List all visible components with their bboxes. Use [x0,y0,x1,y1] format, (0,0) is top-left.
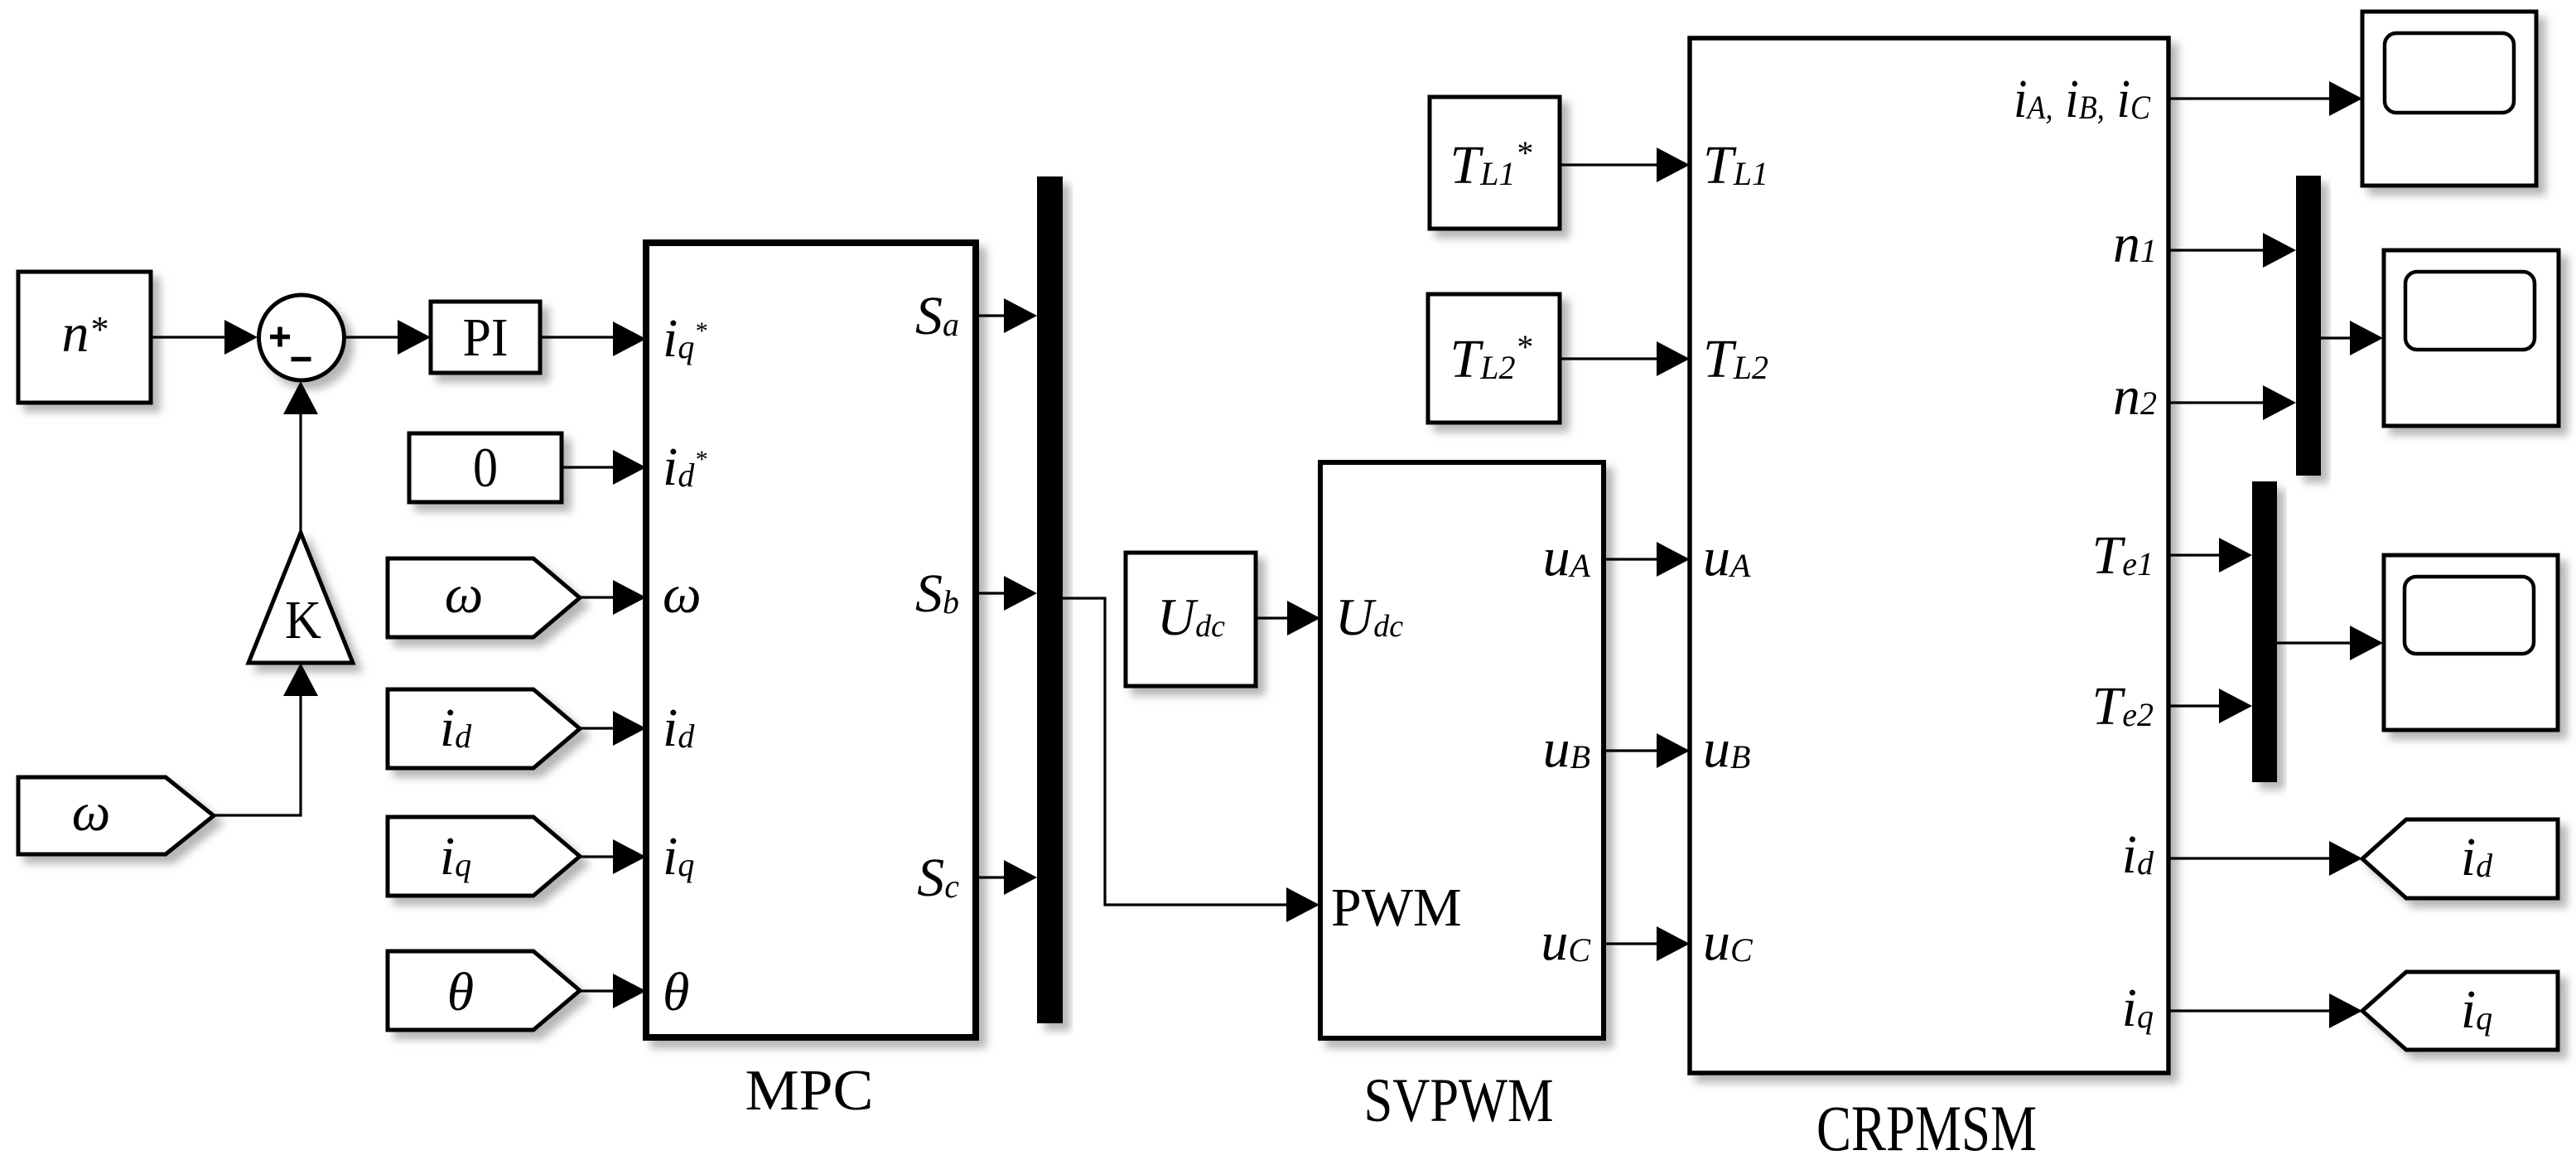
wire omega to MPC [580,580,646,615]
wire omega tag to K (elbow up) [214,663,318,815]
wire mux2 to scope2 [2321,321,2383,355]
wire Te2 to mux3 [2168,689,2252,723]
svg-text:PI: PI [463,307,509,368]
svg-text:θ: θ [663,962,689,1022]
MPC block [646,243,976,1037]
wire n* to sum [151,320,258,355]
gain triangle K [248,533,353,663]
CRPMSM block [1690,38,2168,1073]
wire iABC to scope1 [2168,81,2362,116]
svg-text:0: 0 [473,436,498,499]
svg-text:θ: θ [447,962,474,1022]
PI block [431,302,540,373]
input tag omega (column) [388,558,580,637]
wire uB to CRPMSM [1604,733,1690,768]
wire theta to MPC [580,974,646,1008]
wire mux3 to scope3 [2277,626,2383,660]
wire Udc to SVPWM [1256,601,1320,636]
svg-text:PWM: PWM [1331,877,1462,938]
scope 3 [2384,555,2558,730]
wire sum to PI [345,320,431,355]
source block n* [18,272,151,403]
SVPWM block [1320,462,1604,1038]
wire Sc to mux [976,860,1037,895]
wire PI to MPC iq* [540,321,646,356]
wire iq to MPC [580,839,646,874]
svg-text:K: K [285,590,321,650]
wire uC to CRPMSM [1604,926,1690,961]
wire iq to out tag [2168,993,2362,1028]
wire n2 to mux2 [2168,385,2296,420]
svg-text:SVPWM: SVPWM [1364,1066,1554,1135]
wire Sa to mux [976,298,1037,333]
wire K to sum (up) [283,381,318,533]
wire Te1 to mux3 [2168,538,2252,573]
wire uA to CRPMSM [1604,542,1690,577]
svg-text:ω: ω [663,564,702,625]
input tag theta [388,951,580,1030]
input tag iq [388,817,580,896]
svg-text:ω: ω [445,564,484,625]
mux bar 3 [2252,481,2277,782]
wire TL2* to CRPMSM [1560,341,1690,376]
output tag id [2362,819,2558,898]
svg-text:CRPMSM: CRPMSM [1816,1092,2037,1160]
constant block TL2* [1428,294,1560,423]
constant block 0 [409,433,562,502]
constant block TL1* [1430,97,1560,229]
wire 0 to MPC id* [562,450,646,485]
wire id to MPC [580,711,646,746]
mux bar 1 [1037,176,1063,1023]
wire mux to PWM (elbow) [1063,598,1319,922]
scope 1 [2362,12,2536,186]
wire Sb to mux [976,576,1037,611]
input tag omega (bottom left) [18,777,214,854]
svg-text:MPC: MPC [745,1059,874,1123]
scope 2 [2384,250,2559,426]
constant block Udc [1126,553,1256,686]
wire id to out tag [2168,841,2362,876]
output tag iq [2362,972,2558,1050]
input tag id [388,689,580,768]
mux bar 2 [2296,176,2321,476]
wire n1 to mux2 [2168,233,2296,268]
wire TL1* to CRPMSM [1560,147,1690,182]
sum junction [259,295,345,380]
svg-text:ω: ω [72,782,111,843]
